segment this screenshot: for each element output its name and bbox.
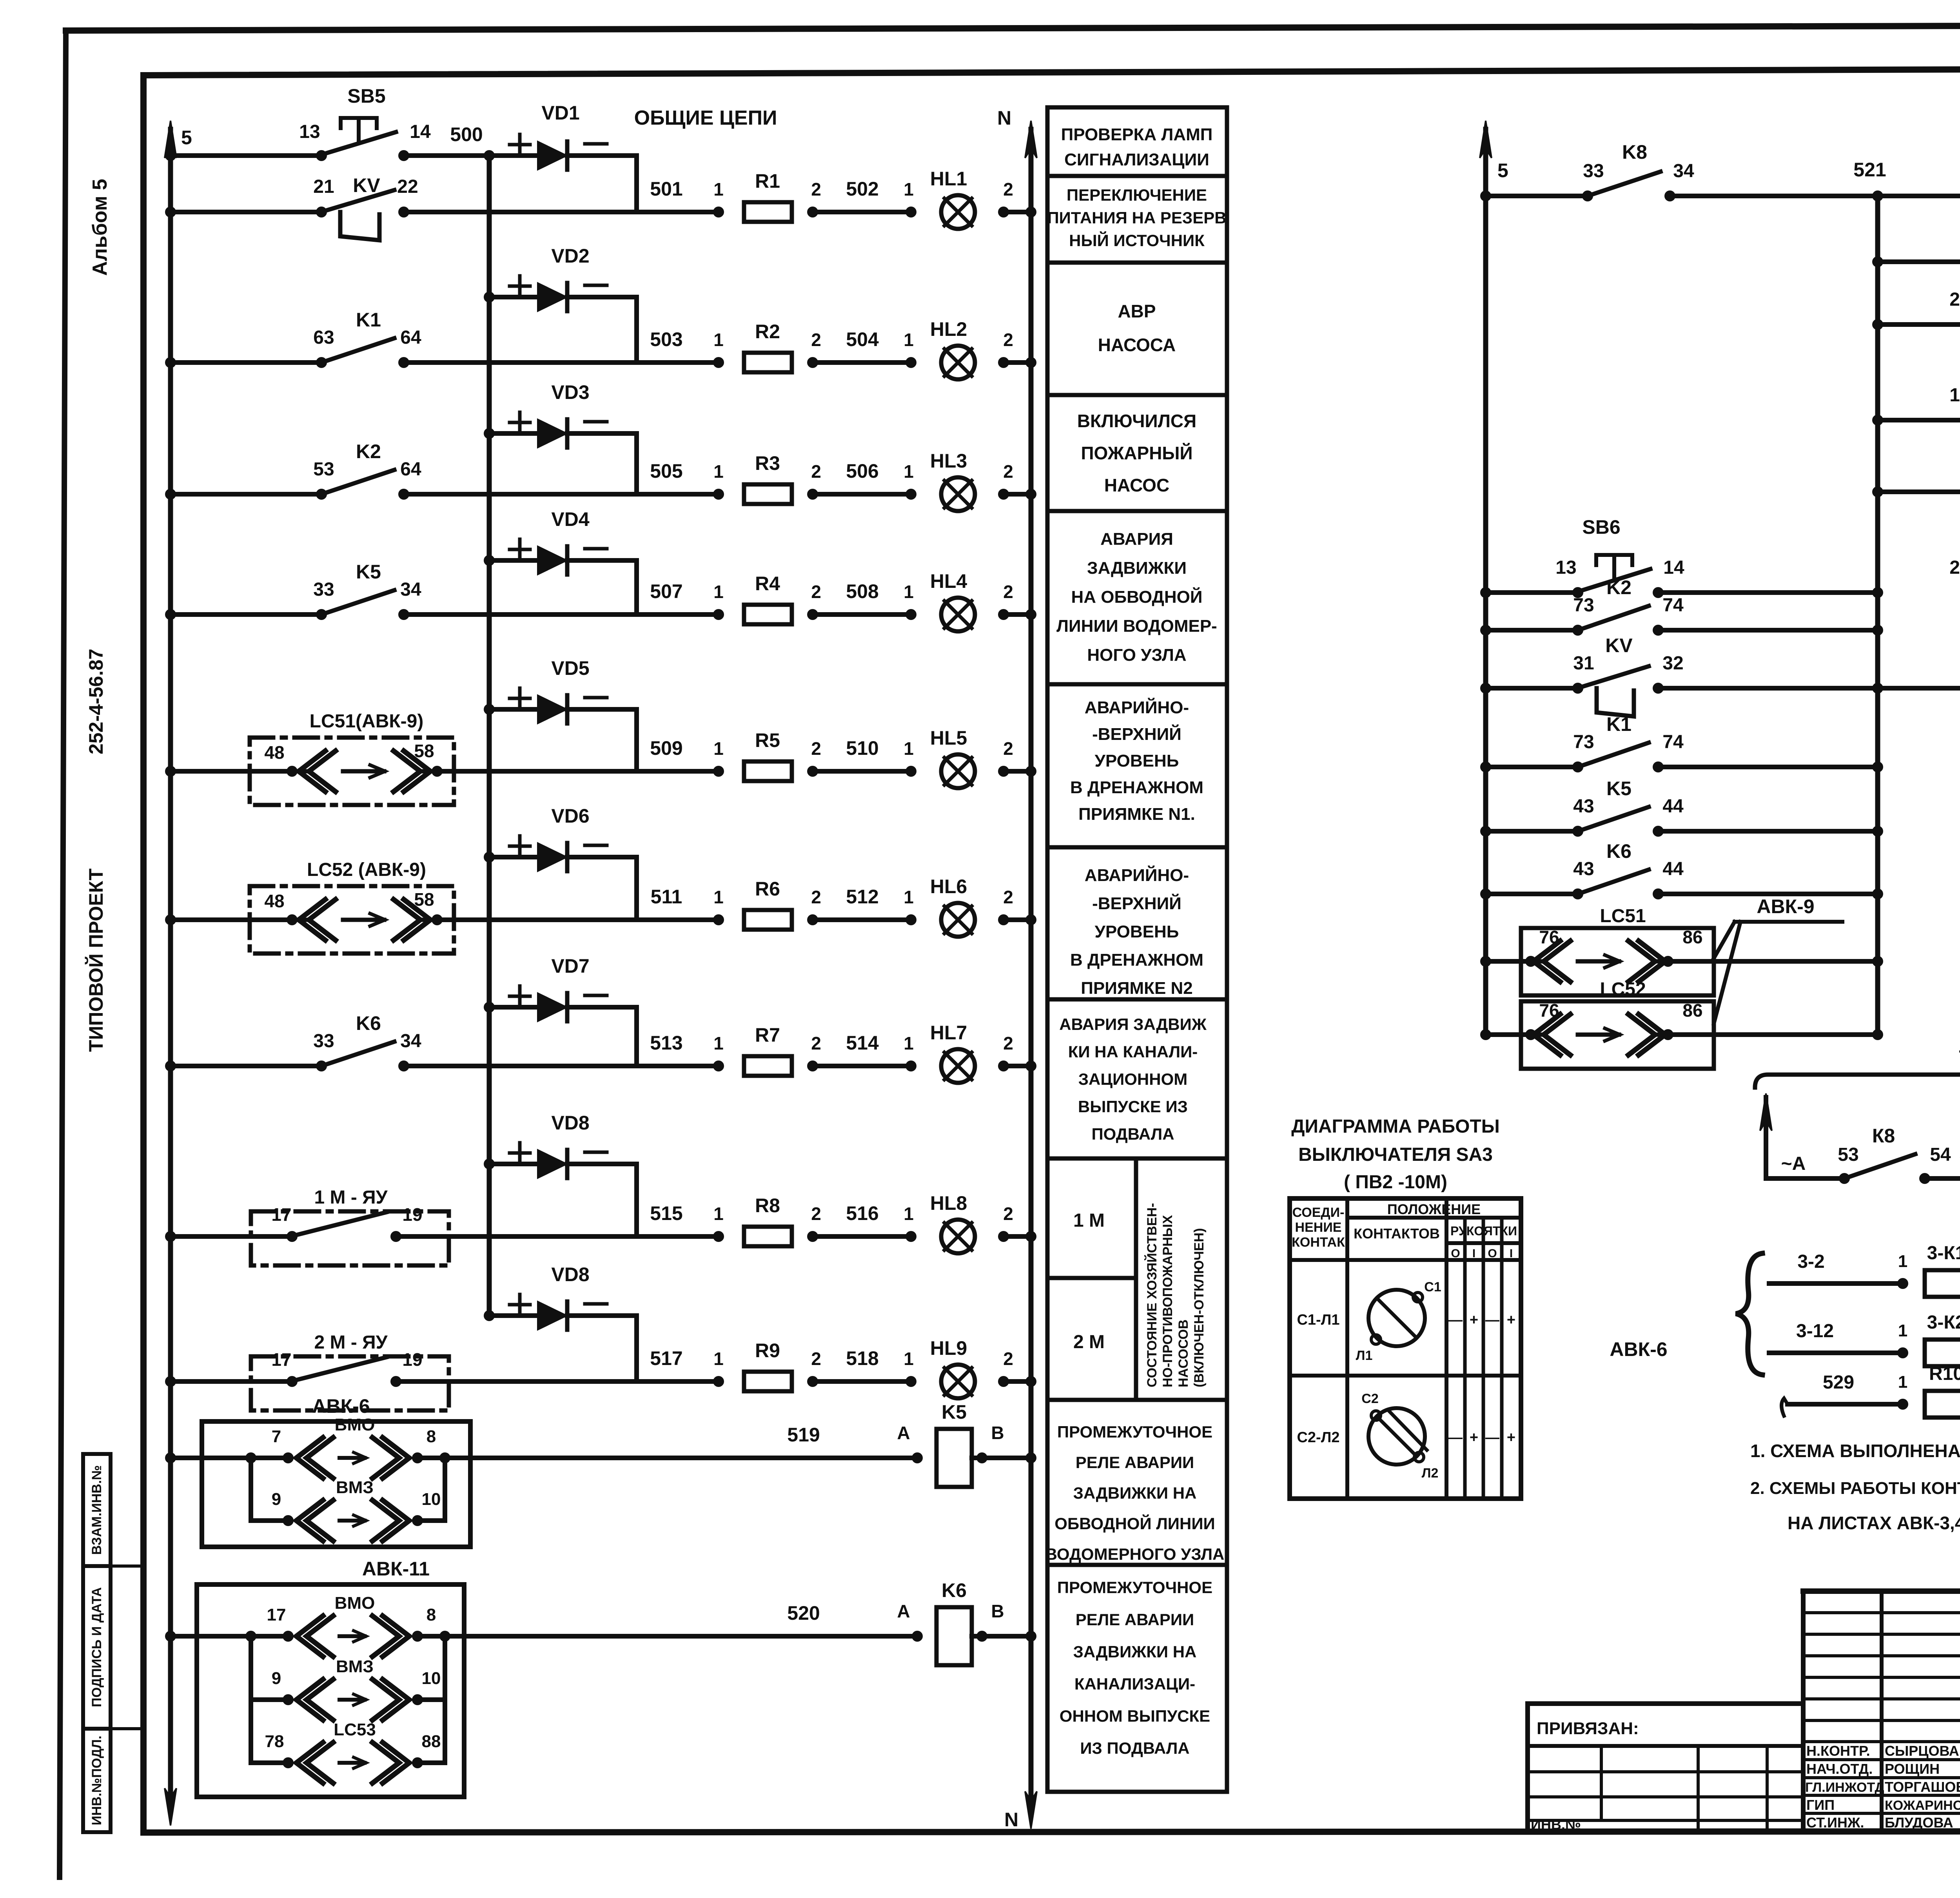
wire VD1 cathode drop to row2 <box>634 156 639 212</box>
svg-text:КОЖАРИНОВА: КОЖАРИНОВА <box>1885 1798 1960 1813</box>
svg-text:I: I <box>1510 1247 1513 1260</box>
lamp HL5 <box>941 754 975 788</box>
svg-text:R2: R2 <box>755 321 780 343</box>
svg-text:VD5: VD5 <box>551 657 589 679</box>
svg-text:74: 74 <box>1662 732 1684 752</box>
limit switch LC51 76-86 <box>1521 928 1714 995</box>
wire row from rail <box>167 767 174 775</box>
wire 526 <box>1925 1176 1960 1181</box>
svg-text:44: 44 <box>1662 859 1684 879</box>
svg-text:HL8: HL8 <box>930 1192 967 1214</box>
svg-text:521: 521 <box>1853 159 1886 181</box>
svg-text:VD2: VD2 <box>551 245 589 267</box>
svg-text:2 М - ЯУ: 2 М - ЯУ <box>314 1332 388 1353</box>
contact ВМЗ 9-10 in АВК-6 <box>249 1458 253 1521</box>
svg-text:63: 63 <box>313 327 334 348</box>
svg-text:N: N <box>997 107 1011 129</box>
svg-text:-ВЕРХНИЙ: -ВЕРХНИЙ <box>1092 893 1181 913</box>
wire 503 segment <box>637 360 719 365</box>
svg-text:2: 2 <box>811 887 821 907</box>
svg-text:2: 2 <box>1003 330 1013 350</box>
svg-text:LC51(АВК-9): LC51(АВК-9) <box>310 711 424 732</box>
limit switch LC52 48-58 <box>250 886 454 954</box>
svg-text:2: 2 <box>811 330 821 350</box>
wire VD7 cathode drop <box>634 1007 639 1066</box>
svg-text:КОНТАКТОВ: КОНТАКТОВ <box>1354 1225 1440 1242</box>
svg-text:48: 48 <box>264 742 284 763</box>
limit switch LC51 48-58 <box>250 738 454 805</box>
svg-text:502: 502 <box>846 178 878 200</box>
svg-text:( ПВ2 -10М): ( ПВ2 -10М) <box>1344 1172 1447 1193</box>
svg-text:ЗАДВИЖКИ НА: ЗАДВИЖКИ НА <box>1073 1484 1197 1502</box>
svg-text:507: 507 <box>650 580 682 602</box>
bus 500 vertical <box>487 156 492 1316</box>
svg-text:ПРОМЕЖУТОЧНОЕ: ПРОМЕЖУТОЧНОЕ <box>1057 1578 1212 1597</box>
svg-text:1 М: 1 М <box>1073 1210 1105 1231</box>
svg-text:1: 1 <box>1898 1252 1907 1271</box>
svg-text:1: 1 <box>904 1349 914 1369</box>
svg-text:2: 2 <box>1003 1204 1013 1224</box>
svg-text:СОЕДИ-: СОЕДИ- <box>1292 1205 1345 1220</box>
svg-text:503: 503 <box>650 328 682 350</box>
svg-text:НА ОБВОДНОЙ: НА ОБВОДНОЙ <box>1071 587 1203 607</box>
relay contact K6 33-34 <box>318 1062 325 1070</box>
contact LC53 in АВК-11 <box>249 1700 253 1763</box>
svg-text:529: 529 <box>1823 1372 1854 1393</box>
svg-text:3-2: 3-2 <box>1797 1251 1824 1272</box>
sub column split <box>1134 1158 1138 1400</box>
svg-text:86: 86 <box>1682 927 1702 947</box>
contact ВМЗ in АВК-11 <box>249 1636 253 1700</box>
svg-text:2: 2 <box>811 1349 821 1369</box>
wire row from rail y=925 <box>167 359 174 366</box>
svg-text:2: 2 <box>1003 582 1013 602</box>
wire row r9 to bus A <box>1658 829 1878 834</box>
svg-text:14: 14 <box>410 121 431 142</box>
svg-text:HL6: HL6 <box>930 876 967 897</box>
svg-text:8: 8 <box>426 1427 436 1446</box>
svg-text:ВМЗ: ВМЗ <box>336 1478 374 1497</box>
svg-text:K6: K6 <box>356 1012 381 1034</box>
wire lamp to N rail <box>1000 208 1007 216</box>
wire 504 segment <box>809 359 817 366</box>
svg-text:—: — <box>1485 1429 1499 1445</box>
svg-text:I: I <box>1472 1247 1475 1260</box>
wire row r11 rail to LC51 <box>1482 957 1490 965</box>
sub divider 1М/2М <box>1047 1276 1136 1280</box>
svg-text:R3: R3 <box>755 452 780 474</box>
diode VD9 <box>485 1312 493 1320</box>
wire lamp to N rail <box>1000 916 1007 924</box>
wire lamp to N rail <box>1000 1378 1007 1385</box>
wire row r4 bus to SB7 <box>1874 416 1882 424</box>
svg-text:78: 78 <box>265 1732 284 1751</box>
relay contact K5 43-44 <box>1574 827 1582 835</box>
svg-text:ПОДПИСЬ И ДАТА: ПОДПИСЬ И ДАТА <box>89 1587 104 1707</box>
wire ~A to K8 contact <box>1766 1176 1844 1181</box>
wire contact to drop <box>404 612 637 617</box>
svg-text:64: 64 <box>400 459 421 480</box>
svg-text:7: 7 <box>272 1427 281 1446</box>
svg-text:3-К2: 3-К2 <box>1927 1312 1960 1333</box>
svg-text:58: 58 <box>414 741 434 761</box>
svg-text:УРОВЕНЬ: УРОВЕНЬ <box>1095 922 1179 941</box>
svg-text:КОНТАК: КОНТАК <box>1292 1235 1345 1250</box>
diode VD6 <box>485 853 493 861</box>
svg-text:514: 514 <box>846 1032 879 1054</box>
svg-text:VD6: VD6 <box>551 805 589 827</box>
bus 521 vertical <box>1875 196 1880 1035</box>
wire 506 segment <box>809 490 817 498</box>
svg-text:ОБВОДНОЙ ЛИНИИ: ОБВОДНОЙ ЛИНИИ <box>1054 1514 1215 1533</box>
pushbutton SB5 <box>318 152 325 160</box>
svg-text:K8: K8 <box>1622 141 1647 163</box>
svg-text:516: 516 <box>846 1202 878 1224</box>
svg-text:ИНВ.№ПОДЛ.: ИНВ.№ПОДЛ. <box>89 1736 104 1825</box>
wire 521 <box>1670 194 1878 198</box>
wire 3-12 row <box>1769 1351 1903 1355</box>
svg-text:9: 9 <box>272 1669 281 1688</box>
svg-text:НАСОСА: НАСОСА <box>1098 335 1176 355</box>
svg-text:В ДРЕНАЖНОМ: В ДРЕНАЖНОМ <box>1070 778 1203 797</box>
resistor R7 <box>744 1056 792 1076</box>
wire VD8 cathode drop <box>634 1164 639 1236</box>
svg-text:1: 1 <box>904 1204 914 1224</box>
svg-text:ВЫКЛЮЧАТЕЛЯ SA3: ВЫКЛЮЧАТЕЛЯ SA3 <box>1298 1144 1493 1165</box>
wire row r3 bus to KT3 contact <box>1874 321 1882 328</box>
svg-text:R4: R4 <box>755 573 780 595</box>
wire VD4 cathode drop <box>634 560 639 615</box>
svg-text:HL3: HL3 <box>930 450 967 472</box>
svg-text:СИГНАЛИЗАЦИИ: СИГНАЛИЗАЦИИ <box>1064 150 1209 169</box>
diode VD1 <box>489 153 538 158</box>
svg-text:ПРИЯМКЕ N2: ПРИЯМКЕ N2 <box>1081 979 1193 998</box>
svg-text:1: 1 <box>713 738 724 759</box>
relay contact K5 33-34 <box>318 611 325 618</box>
svg-text:1: 1 <box>713 582 724 602</box>
svg-text:ТОРГАШОВ: ТОРГАШОВ <box>1885 1779 1960 1795</box>
wire 502 segment <box>809 208 817 216</box>
wire ВМО to box edge <box>417 1456 470 1460</box>
svg-text:С2-Л2: С2-Л2 <box>1297 1429 1339 1446</box>
wire row r10 to bus A <box>1658 892 1878 896</box>
svg-text:-ВЕРХНИЙ: -ВЕРХНИЙ <box>1092 724 1181 744</box>
svg-text:1: 1 <box>904 461 914 482</box>
wire 22 to drop <box>404 210 637 214</box>
svg-text:АВК-6: АВК-6 <box>312 1395 370 1417</box>
svg-text:ГЛ.ИНЖОТД: ГЛ.ИНЖОТД <box>1805 1780 1884 1795</box>
wire contact to drop <box>396 1234 637 1239</box>
svg-text:ПОЖАРНЫЙ: ПОЖАРНЫЙ <box>1081 443 1192 463</box>
resistor R2 <box>744 353 792 372</box>
wire row12 from rail <box>167 1632 174 1640</box>
svg-text:R9: R9 <box>755 1340 780 1361</box>
lamp HL2 <box>941 346 975 379</box>
svg-text:АВР: АВР <box>1118 301 1156 321</box>
svg-text:LC53: LC53 <box>334 1720 376 1739</box>
svg-text:VD4: VD4 <box>551 508 589 530</box>
contact ВМО 7-8 in АВК-6 <box>247 1454 255 1462</box>
wire 510 segment <box>809 767 817 775</box>
svg-text:1: 1 <box>1898 1372 1907 1392</box>
svg-text:R8: R8 <box>755 1195 780 1216</box>
wire row from rail y=1568 <box>167 611 174 618</box>
svg-text:ВЗАМ.ИНВ.№: ВЗАМ.ИНВ.№ <box>89 1465 104 1555</box>
svg-text:21: 21 <box>313 176 334 197</box>
svg-text:Л2: Л2 <box>1422 1466 1439 1481</box>
svg-text:С1: С1 <box>1424 1280 1441 1294</box>
svg-text:АВК-9: АВК-9 <box>1757 896 1814 917</box>
svg-text:АВК-11: АВК-11 <box>362 1558 430 1580</box>
svg-text:ЗАЦИОННОМ: ЗАЦИОННОМ <box>1078 1070 1188 1088</box>
limit switch LC52 76-86 <box>1521 1001 1714 1069</box>
svg-text:R6: R6 <box>755 878 780 900</box>
svg-text:НАСОСОВ: НАСОСОВ <box>1176 1320 1191 1387</box>
svg-text:74: 74 <box>1662 595 1684 616</box>
svg-text:1: 1 <box>713 887 724 907</box>
privyazan grid <box>1528 1744 1803 1748</box>
wire row r12 rail to LC52 <box>1482 1031 1490 1039</box>
wire VD6 cathode drop <box>634 857 639 920</box>
svg-text:~А: ~А <box>1781 1153 1806 1174</box>
svg-text:VD3: VD3 <box>551 381 589 403</box>
svg-text:—: — <box>1448 1429 1463 1445</box>
wire row from rail <box>167 916 174 924</box>
wire row1 from rail to SB5 <box>167 152 174 160</box>
wire 525 to K8 coil <box>1658 686 1960 691</box>
svg-text:73: 73 <box>1573 595 1594 616</box>
svg-text:—: — <box>1485 1312 1499 1328</box>
svg-text:508: 508 <box>846 580 878 602</box>
svg-text:R10: R10 <box>1929 1363 1960 1384</box>
svg-text:НЫЙ ИСТОЧНИК: НЫЙ ИСТОЧНИК <box>1069 231 1205 250</box>
svg-text:510: 510 <box>846 737 878 759</box>
svg-text:2: 2 <box>811 738 821 759</box>
wire lamp to N rail <box>1000 1062 1007 1070</box>
lamp HL4 <box>941 598 975 631</box>
wire row r6 to bus A <box>1658 628 1878 633</box>
svg-text:48: 48 <box>264 891 284 911</box>
svg-text:K2: K2 <box>1606 576 1632 598</box>
left supply rail 5 <box>168 129 173 1799</box>
svg-text:+: + <box>1470 1429 1478 1446</box>
svg-text:2: 2 <box>1003 179 1013 199</box>
svg-text:1: 1 <box>713 461 724 482</box>
pushbutton SB6 13-14 <box>1574 589 1582 596</box>
svg-text:2: 2 <box>1003 1033 1013 1053</box>
svg-text:K6: K6 <box>1606 840 1632 862</box>
svg-text:2: 2 <box>1003 887 1013 907</box>
svg-text:ВОДОМЕРНОГО УЗЛА: ВОДОМЕРНОГО УЗЛА <box>1045 1545 1225 1563</box>
svg-text:ВКЛЮЧИЛСЯ: ВКЛЮЧИЛСЯ <box>1077 411 1196 431</box>
privyazan box <box>1528 1704 1803 1831</box>
wire row from rail <box>167 1233 174 1240</box>
wire 507 segment <box>637 612 719 617</box>
svg-text:Альбом 5: Альбом 5 <box>89 179 111 276</box>
lamp common rail N <box>1029 129 1034 1803</box>
wire row r5 rail to SB6 <box>1482 589 1490 596</box>
svg-text:В ДРЕНАЖНОМ: В ДРЕНАЖНОМ <box>1070 950 1203 970</box>
svg-text:17: 17 <box>271 1204 291 1225</box>
relay coil K6 <box>936 1607 972 1665</box>
svg-text:KV: KV <box>1605 634 1633 656</box>
relay contact K8 53-54 (220V) <box>1840 1175 1848 1182</box>
svg-text:33: 33 <box>313 1031 334 1051</box>
wire VD9 cathode drop <box>634 1316 639 1381</box>
wire 3-2 row <box>1769 1281 1903 1286</box>
svg-text:1: 1 <box>904 1033 914 1053</box>
svg-text:СОСТОЯНИЕ ХОЗЯЙСТВЕН-: СОСТОЯНИЕ ХОЗЯЙСТВЕН- <box>1144 1203 1160 1388</box>
svg-text:31: 31 <box>1573 653 1594 674</box>
diode VD8 <box>485 1160 493 1168</box>
wire 518 segment <box>809 1378 817 1385</box>
svg-text:ВЫПУСКЕ ИЗ: ВЫПУСКЕ ИЗ <box>1078 1097 1188 1116</box>
svg-text:N: N <box>1004 1809 1018 1831</box>
svg-text:2: 2 <box>811 1033 821 1053</box>
svg-text:HL9: HL9 <box>930 1337 967 1359</box>
svg-text:K5: K5 <box>1606 778 1632 799</box>
relay coil 3-К2 <box>1925 1340 1960 1366</box>
left description column frame <box>1047 107 1227 1792</box>
svg-text:27: 27 <box>1949 289 1960 310</box>
svg-text:SB6: SB6 <box>1582 516 1620 538</box>
svg-text:ПРИЯМКЕ N1.: ПРИЯМКЕ N1. <box>1078 805 1195 824</box>
wire row r7 rail to KV <box>1482 684 1490 692</box>
wire row11 from rail <box>167 1454 174 1462</box>
svg-text:512: 512 <box>846 886 878 908</box>
svg-text:1: 1 <box>904 738 914 759</box>
svg-text:K5: K5 <box>356 561 381 583</box>
wire 511 segment <box>637 917 719 922</box>
svg-text:НА ЛИСТАХ АВК-3,4.: НА ЛИСТАХ АВК-3,4. <box>1788 1513 1960 1533</box>
wire row r1 rail to K8 <box>1482 192 1490 200</box>
svg-text:HL4: HL4 <box>930 570 967 592</box>
wire contact to drop <box>396 1379 637 1384</box>
svg-text:R7: R7 <box>755 1024 780 1046</box>
svg-text:РУКОЯТКИ: РУКОЯТКИ <box>1450 1224 1517 1238</box>
svg-text:HL5: HL5 <box>930 727 967 749</box>
svg-text:R5: R5 <box>755 729 780 751</box>
SA3 contact diagram C1-Л1 <box>1368 1290 1425 1346</box>
resistor R9 <box>744 1372 792 1391</box>
svg-text:+: + <box>1470 1312 1478 1328</box>
svg-text:A: A <box>897 1601 910 1621</box>
wire to K7 contact <box>1878 194 1960 198</box>
svg-text:VD1: VD1 <box>541 102 579 124</box>
wire 513 segment <box>637 1064 719 1068</box>
wire 509 segment <box>637 769 719 774</box>
svg-text:3-12: 3-12 <box>1796 1321 1834 1341</box>
wire 505 segment <box>637 492 719 497</box>
svg-text:ОННОМ ВЫПУСКЕ: ОННОМ ВЫПУСКЕ <box>1060 1707 1210 1725</box>
svg-text:КАНАЛИЗАЦИ-: КАНАЛИЗАЦИ- <box>1074 1675 1195 1693</box>
wire lamp to N rail <box>1000 359 1007 366</box>
svg-text:2 М: 2 М <box>1073 1332 1105 1352</box>
wire row r10 rail to K6 <box>1482 890 1490 898</box>
svg-text:НАЧ.ОТД.: НАЧ.ОТД. <box>1806 1761 1873 1777</box>
svg-text:HL1: HL1 <box>930 168 967 190</box>
wire 501 segment <box>637 210 719 214</box>
wire SB6 to bus A <box>1658 590 1878 595</box>
svg-text:РЕЛЕ АВАРИИ: РЕЛЕ АВАРИИ <box>1076 1610 1194 1629</box>
relay coil 3-К1 <box>1925 1270 1960 1297</box>
svg-text:1: 1 <box>904 887 914 907</box>
svg-text:К8: К8 <box>1872 1125 1895 1147</box>
sidebar stamp column boxes <box>83 1454 111 1566</box>
svg-text:1: 1 <box>904 582 914 602</box>
svg-text:2: 2 <box>1003 1349 1013 1369</box>
svg-text:LC52: LC52 <box>1600 979 1646 1000</box>
wire contact to drop <box>404 492 637 497</box>
lamp HL3 <box>941 477 975 511</box>
relay contact K1 63-64 <box>318 359 325 366</box>
svg-text:2: 2 <box>811 1204 821 1224</box>
svg-text:С1-Л1: С1-Л1 <box>1297 1312 1339 1328</box>
svg-text:1: 1 <box>904 330 914 350</box>
svg-text:СТ.ИНЖ.: СТ.ИНЖ. <box>1806 1815 1864 1831</box>
svg-text:K1: K1 <box>1606 713 1632 735</box>
svg-text:519: 519 <box>787 1424 820 1446</box>
svg-text:HL2: HL2 <box>930 318 967 340</box>
wire row r12 to bus A <box>1668 1032 1878 1037</box>
svg-text:ТИПОВОЙ ПРОЕКТ: ТИПОВОЙ ПРОЕКТ <box>85 868 107 1052</box>
svg-text:VD8: VD8 <box>551 1264 589 1285</box>
resistor R6 <box>744 910 792 930</box>
svg-text:500: 500 <box>450 123 483 145</box>
svg-text:1 М - ЯУ: 1 М - ЯУ <box>314 1187 388 1208</box>
svg-text:НАСОС: НАСОС <box>1104 475 1169 495</box>
svg-text:УРОВЕНЬ: УРОВЕНЬ <box>1095 751 1179 770</box>
svg-text:1: 1 <box>713 1204 724 1224</box>
wire contact to drop <box>437 769 637 774</box>
svg-text:17: 17 <box>267 1605 286 1624</box>
svg-text:2: 2 <box>811 179 821 199</box>
svg-text:10: 10 <box>422 1490 441 1509</box>
svg-text:ИЗ ПОДВАЛА: ИЗ ПОДВАЛА <box>1080 1739 1189 1757</box>
wire KT3 coil row from bus <box>1874 488 1882 496</box>
wire K5 to N rail <box>978 1454 986 1462</box>
svg-text:1: 1 <box>713 179 724 199</box>
wire SB5 to node 500 <box>404 153 489 158</box>
svg-text:33: 33 <box>1583 161 1604 181</box>
svg-text:ПЕРЕКЛЮЧЕНИЕ: ПЕРЕКЛЮЧЕНИЕ <box>1067 186 1207 204</box>
relay contact K1 73-74 <box>1574 763 1582 771</box>
svg-text:(ВКЛЮЧЕН-ОТКЛЮЧЕН): (ВКЛЮЧЕН-ОТКЛЮЧЕН) <box>1192 1228 1207 1387</box>
relay contact K2 73-74 <box>1574 626 1582 634</box>
svg-text:~ 220В(РАЗДЕЛ„3°): ~ 220В(РАЗДЕЛ„3°) <box>1958 1040 1960 1063</box>
svg-text:ОБЩИЕ ЦЕПИ: ОБЩИЕ ЦЕПИ <box>634 107 777 129</box>
svg-text:13: 13 <box>1555 557 1576 578</box>
wire row r8 to bus A <box>1658 765 1878 769</box>
svg-text:LC52 (АВК-9): LC52 (АВК-9) <box>307 859 426 880</box>
svg-text:43: 43 <box>1573 859 1594 879</box>
resistor R3 <box>744 484 792 504</box>
svg-text:АВАРИЙНО-: АВАРИЙНО- <box>1085 865 1189 885</box>
svg-text:2: 2 <box>1003 461 1013 482</box>
svg-text:76: 76 <box>1539 927 1559 947</box>
svg-text:B: B <box>991 1423 1004 1443</box>
svg-text:518: 518 <box>846 1347 878 1369</box>
resistor R10 <box>1925 1391 1960 1418</box>
relay contact K2 53-64 <box>318 490 325 498</box>
svg-text:С2: С2 <box>1361 1391 1378 1406</box>
svg-text:43: 43 <box>1573 796 1594 817</box>
wire 508 segment <box>809 611 817 618</box>
svg-text:73: 73 <box>1573 732 1594 752</box>
svg-text:17: 17 <box>271 1349 291 1370</box>
relay contact K8 33-34 <box>1584 192 1592 200</box>
svg-text:SB5: SB5 <box>347 85 385 107</box>
